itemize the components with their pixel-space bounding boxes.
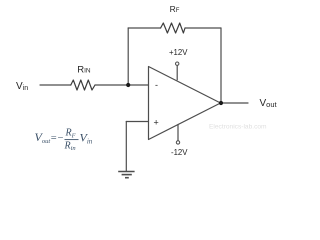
wire ground vertical: [125, 122, 127, 172]
svg-text:RF: RF: [65, 128, 77, 140]
svg-text:Rin: Rin: [64, 141, 76, 153]
wire output: [221, 102, 248, 104]
wire non-inverting input: [126, 121, 148, 123]
wire RIN to inverting input: [95, 84, 149, 86]
svg-text:+12V: +12V: [169, 48, 188, 57]
svg-text:+: +: [154, 118, 159, 128]
svg-text:Vout: Vout: [260, 98, 278, 109]
wire feedback top left: [128, 27, 160, 29]
wire Vin input: [40, 84, 71, 86]
svg-text:Vin: Vin: [16, 81, 28, 92]
junction output node: [219, 101, 223, 105]
op-amp U1: [149, 67, 221, 140]
svg-text:=: =: [51, 133, 57, 144]
ground: [118, 172, 134, 178]
wire feedback top right: [185, 27, 221, 29]
junction node A (inverting input / feedback): [126, 83, 130, 87]
svg-text:−: −: [58, 133, 64, 144]
svg-text:Vout: Vout: [35, 130, 51, 145]
+12V supply pin stem: [176, 66, 178, 80]
resistor RIN: [71, 80, 95, 90]
wire feedback left vertical: [127, 28, 129, 85]
svg-text:Electronics-lab.com: Electronics-lab.com: [209, 124, 267, 131]
resistor RF: [161, 23, 185, 33]
svg-text:-: -: [155, 80, 158, 90]
svg-text:-12V: -12V: [171, 148, 188, 157]
formula Vout = -RF/Rin Vin: [35, 128, 93, 153]
wire feedback right vertical: [220, 28, 222, 103]
+12V supply pin terminal: [176, 62, 179, 65]
svg-text:Vin: Vin: [80, 131, 93, 146]
-12V supply pin stem: [177, 125, 179, 141]
svg-text:RIN: RIN: [77, 65, 91, 76]
svg-text:RF: RF: [170, 4, 180, 14]
-12V supply pin terminal: [176, 141, 179, 144]
